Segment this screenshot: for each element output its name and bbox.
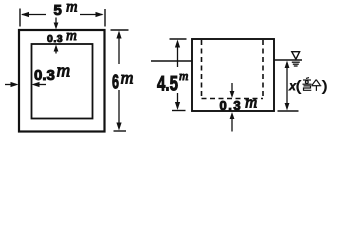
6m dimension: bottom tick: [114, 130, 127, 132]
hangul 흘 (draft) hand-drawn: [303, 78, 312, 91]
svg-text:(: (: [296, 78, 301, 94]
X dimension: down arrow at bottom: [285, 103, 290, 111]
svg-text:0.3: 0.3: [47, 33, 63, 45]
right figure: dashed inner bottom: [202, 98, 264, 100]
svg-text:5: 5: [54, 2, 62, 19]
4.5m dimension: upper line with up arrow: [177, 43, 179, 67]
X dimension: line with up arrow at waterline: [286, 64, 288, 108]
waterline tick right of elevation: [274, 59, 302, 61]
0.3m top wall: up arrow below inner top edge: [55, 47, 57, 54]
right figure: outer rectangle (elevation): [192, 39, 274, 111]
right figure: dashed inner left wall: [201, 40, 203, 99]
svg-text:0.3: 0.3: [34, 67, 55, 84]
5m dimension extension line right: [104, 9, 106, 27]
0.3m left wall: outside arrow pointing right at outer left edge: [5, 84, 16, 86]
hangul 수 (draft) hand-drawn: [312, 80, 322, 91]
left figure: outer rectangle (plan view of tank): [19, 30, 105, 132]
0.3m left wall: inside arrow pointing left at inner left edge: [34, 84, 46, 86]
svg-text:m: m: [57, 61, 71, 82]
6m dimension: upper line with up arrow: [118, 34, 120, 64]
svg-text:m: m: [121, 68, 134, 88]
0.3m bottom: up arrow below tank bottom: [231, 115, 233, 132]
svg-text:m: m: [179, 68, 188, 83]
6m dimension: top tick: [111, 29, 129, 31]
5m dimension line left segment with left arrow: [22, 14, 46, 16]
svg-text:m: m: [66, 28, 77, 44]
water surface symbol: triangle: [292, 52, 300, 60]
4.5m dimension: bottom tick: [172, 110, 186, 112]
5m dimension line right segment with right arrow: [80, 14, 103, 16]
left figure: inner rectangle (cavity): [32, 44, 93, 119]
4.5m dimension: top tick: [170, 38, 187, 40]
water surface symbol: hatch lines: [292, 61, 300, 63]
5m dimension extension line left: [19, 9, 21, 27]
0.3m top wall: down arrow above outer top edge: [55, 18, 57, 28]
svg-text:4.5: 4.5: [157, 71, 178, 95]
4.5m dimension: lower line with down arrow: [177, 93, 179, 107]
svg-text:6: 6: [112, 71, 119, 94]
svg-text:m: m: [245, 93, 257, 112]
svg-text:0.3: 0.3: [220, 98, 243, 113]
waterline tick left of elevation: [151, 60, 192, 62]
0.3m bottom: down arrow inside tank to dashed bottom: [231, 83, 233, 96]
6m dimension: lower line with down arrow: [118, 90, 120, 127]
X dimension: bottom tick: [278, 110, 299, 112]
svg-text:): ): [323, 78, 328, 94]
svg-text:m: m: [66, 0, 78, 16]
right figure: dashed inner right wall: [262, 40, 264, 99]
